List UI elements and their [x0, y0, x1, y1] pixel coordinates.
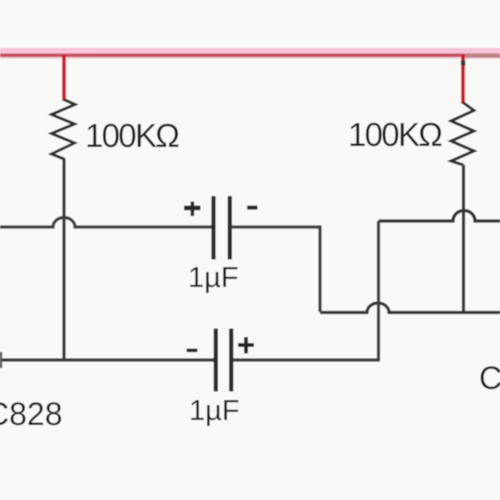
wire: bottom rail left segment to C2 [0, 358, 214, 361]
wire: C1 right plate to mid vertical and down [231, 227, 320, 312]
power rail +V (pink/red horizontal bus) [0, 48, 500, 59]
wire: left edge stub [0, 352, 2, 368]
wire: mid horizontal with hop over x378 vertical [320, 303, 500, 313]
svg-text:1µF: 1µF [188, 262, 239, 294]
svg-text:100KΩ: 100KΩ [85, 117, 179, 154]
resistor R2 [451, 103, 474, 166]
resistor R1 [52, 100, 76, 160]
wire: R2 bottom vertical down to mid horizontal [462, 165, 465, 312]
wire: upper right horizontal with hop over R2 wire [379, 211, 500, 222]
capacitor C1 1uF (plates) [214, 196, 230, 260]
svg-text:C828: C828 [0, 396, 63, 432]
svg-text:100KΩ: 100KΩ [348, 116, 442, 153]
wire: red drop from rail to R1 [62, 55, 66, 101]
capacitor C2 1uF (plates) [216, 329, 231, 392]
svg-text:C828: C828 [479, 360, 500, 396]
wire: left horizontal into C1 with hop over R1 wire [0, 218, 212, 228]
label C1 polarity minus [247, 206, 258, 210]
wire: C2 right plate to x378 vertical [233, 358, 380, 361]
label C1 polarity plus [184, 202, 201, 217]
label C2 polarity plus [238, 337, 254, 354]
wire: R1 bottom vertical down to bottom rail [62, 158, 65, 361]
label C2 polarity minus [187, 349, 198, 353]
junction blob on R2 drop [461, 61, 465, 66]
wire: vertical x378 from upper horizontal to bottom rail [377, 221, 380, 360]
wire: red drop from rail to R2 [461, 55, 465, 104]
svg-text:1µF: 1µF [189, 395, 240, 427]
